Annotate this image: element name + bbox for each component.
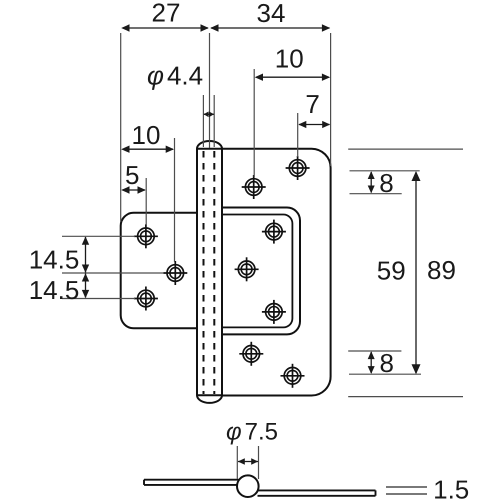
svg-text:10: 10 [275,43,304,73]
screw hole R4 recess middle [235,257,259,281]
extension line top hole row (right side) [350,170,420,172]
dimension 14.5 upper [29,237,90,275]
svg-text:14.5: 14.5 [29,275,80,305]
thickness leader lines [386,487,427,494]
embossed recess outer outline [205,208,300,335]
dimension 14.5 lower [29,273,90,305]
svg-text:7: 7 [305,89,319,119]
svg-text:φ4.4: φ4.4 [147,61,203,91]
hidden pin dashed line right [213,151,215,394]
dimension 10 (top right) [255,43,331,81]
extension line bottom hole row (right side) [349,373,421,375]
dimension 34 [210,0,330,32]
extension line hole L2 column for dim 10 left [174,138,176,262]
label phi 7.5 [226,419,278,446]
bottom view: knuckle circle [237,475,259,497]
dimension 89 label [427,255,456,285]
hidden pin dashed line left [203,151,205,394]
screw hole R7 bottom-right [281,364,305,388]
extension line for bottom 8 dim [348,350,401,352]
svg-text:φ7.5: φ7.5 [226,419,278,446]
leader line hole L1 row [62,235,135,237]
pin outline thin line right [213,95,215,147]
right leaf plate [205,149,331,396]
screw hole R3 recess top [262,220,286,244]
screw hole L3 [134,287,158,311]
screw hole R6 bottom-left [239,342,263,366]
dimension arrows for 7.5 [238,458,258,464]
pin outline thin line left [202,95,204,147]
extension line hole L1 column for dim 5 [145,178,147,225]
svg-text:8: 8 [379,168,393,198]
dimension 27 [121,0,209,32]
svg-text:34: 34 [257,0,286,28]
extension line for top 8 dim [350,193,402,195]
left leaf plate [121,213,197,328]
center line of pin (extension for dims 27/34) [209,33,211,148]
leader line hole L2 row [62,272,164,274]
svg-text:10: 10 [132,120,161,150]
extension line plate bottom edge (right side) [348,396,463,398]
extension line knuckle right for dim 7.5 [258,446,260,479]
label phi 4.4 (pin diameter) [147,61,203,91]
svg-text:89: 89 [427,255,456,285]
screw hole L2 [163,261,187,285]
extension line knuckle left for dim 7.5 [236,446,238,479]
extension line right plate edge for dim 34 [330,33,332,166]
dimension 10 (left) [121,120,174,153]
screw hole L1 [134,224,158,248]
label 1.5 thickness [433,475,469,500]
dimension 5 [121,160,146,194]
svg-text:5: 5 [125,160,139,190]
svg-text:59: 59 [377,256,406,286]
bottom view: right leaf bar [258,490,376,495]
dimension arrows for 4.4 [204,112,214,118]
dimension 7 [298,89,330,128]
svg-text:14.5: 14.5 [29,245,80,275]
svg-text:1.5: 1.5 [433,475,469,500]
svg-text:8: 8 [379,348,393,378]
dimension 59 line [377,171,421,374]
extension line plate top edge (right side) [348,148,463,150]
extension line left plate edge for dim 27 [120,33,122,222]
screw hole R1 top-right [286,156,310,180]
dimension 8 top [368,168,394,198]
extension line hole R1 column for dim 7 [297,113,299,157]
bottom view: left leaf bar [144,480,239,485]
dimension 8 bottom [368,348,394,378]
embossed recess inner outline [205,215,292,328]
screw hole R5 recess bottom [262,300,286,324]
screw hole R2 top-left [242,175,266,199]
extension line hole R2 column for dim 10 [253,69,255,177]
hinge barrel (knuckle) [197,141,222,403]
svg-text:27: 27 [152,0,181,28]
leader line hole L3 row [62,298,135,300]
